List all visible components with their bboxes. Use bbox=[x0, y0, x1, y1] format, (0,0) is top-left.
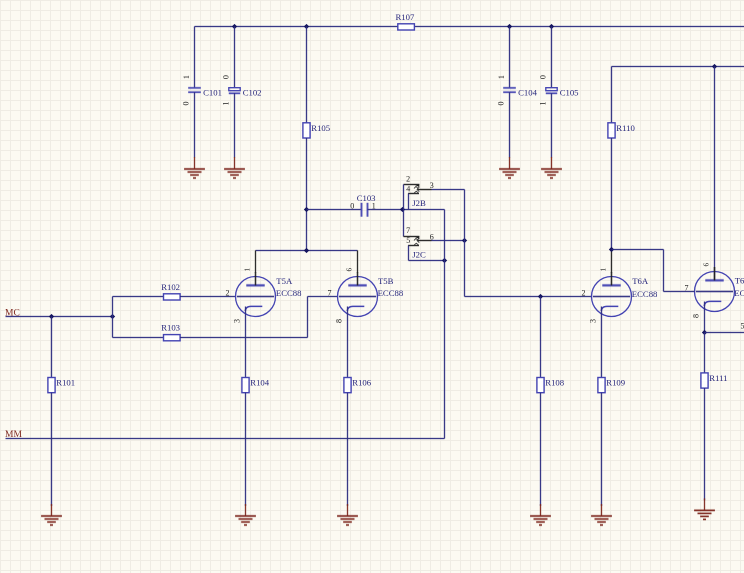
wire R105 lower bbox=[305, 138, 308, 251]
svg-text:0: 0 bbox=[497, 102, 506, 106]
resistor R105 bbox=[303, 123, 330, 138]
connector J2C pin 5 bbox=[406, 236, 419, 246]
wire J2C pin5 to MM riser bbox=[409, 259, 445, 262]
svg-text:T6B: T6B bbox=[735, 275, 744, 285]
ground R109 bbox=[591, 504, 612, 525]
wire top B+ rail right segment bbox=[415, 25, 744, 28]
svg-text:5: 5 bbox=[406, 236, 410, 245]
junction T6A anode bbox=[609, 247, 614, 252]
resistor R106 bbox=[344, 378, 372, 393]
triode T6A bbox=[582, 267, 659, 323]
wire C105 top bbox=[550, 27, 553, 88]
resistor R103 bbox=[161, 323, 180, 341]
svg-text:3: 3 bbox=[588, 319, 597, 323]
svg-text:R101: R101 bbox=[56, 378, 75, 388]
triode T5A bbox=[226, 267, 303, 323]
svg-text:0: 0 bbox=[350, 201, 354, 210]
svg-text:0: 0 bbox=[538, 75, 547, 79]
ground R101 bbox=[41, 504, 62, 525]
svg-text:1: 1 bbox=[600, 267, 608, 271]
wire C101 bottom bbox=[193, 92, 196, 157]
junction R108 tap bbox=[538, 294, 543, 299]
wire J2B pin2 to node A bbox=[402, 185, 405, 237]
svg-text:T5A: T5A bbox=[276, 276, 293, 286]
wire R103 right bbox=[180, 336, 307, 339]
wire T5A cathode bbox=[244, 307, 247, 378]
label J2C bbox=[412, 250, 426, 260]
wire R106 lower bbox=[346, 393, 349, 506]
triode T6B bbox=[685, 262, 744, 318]
svg-text:0: 0 bbox=[182, 102, 191, 106]
svg-text:2: 2 bbox=[406, 175, 410, 184]
resistor R102 bbox=[161, 282, 180, 300]
resistor R110 bbox=[608, 123, 636, 138]
svg-text:6: 6 bbox=[346, 267, 354, 271]
wire R101 lower bbox=[50, 393, 53, 506]
svg-text:7: 7 bbox=[406, 226, 410, 235]
svg-text:J2B: J2B bbox=[412, 198, 426, 208]
wire C103 left bbox=[307, 208, 362, 211]
resistor R107 bbox=[396, 12, 415, 30]
wire J2B pin4 down bbox=[407, 194, 410, 210]
connector J2C pin 7 bbox=[404, 226, 420, 240]
wire C102 bottom bbox=[233, 93, 236, 157]
wire R102 left bbox=[113, 295, 164, 298]
svg-text:2: 2 bbox=[582, 288, 586, 297]
svg-text:C101: C101 bbox=[203, 88, 222, 98]
svg-text:5: 5 bbox=[741, 322, 744, 331]
wire J2B pin3 right bbox=[432, 188, 465, 191]
wire R101 upper bbox=[50, 317, 53, 378]
wire C104 top bbox=[508, 27, 511, 88]
wire T5B cathode bbox=[346, 307, 349, 378]
svg-text:2: 2 bbox=[226, 288, 230, 297]
wire R102 right bbox=[180, 295, 235, 298]
wire C104 bottom bbox=[508, 92, 511, 157]
svg-text:R109: R109 bbox=[606, 378, 625, 388]
junction R101 tap bbox=[49, 314, 54, 319]
ground R104 bbox=[235, 504, 256, 525]
svg-text:1: 1 bbox=[538, 102, 547, 106]
svg-text:T5B: T5B bbox=[378, 276, 394, 286]
svg-text:R111: R111 bbox=[709, 373, 727, 383]
wire MC bbox=[6, 315, 113, 318]
svg-text:R103: R103 bbox=[161, 323, 180, 333]
wire T6B grid riser bbox=[662, 250, 665, 292]
svg-text:C105: C105 bbox=[560, 88, 579, 98]
wire R111 lower bbox=[703, 388, 706, 500]
svg-text:R104: R104 bbox=[250, 378, 269, 388]
wire T6B anode bbox=[713, 67, 716, 281]
junction C104 top bbox=[507, 24, 512, 29]
junction C105 top bbox=[549, 24, 554, 29]
svg-text:7: 7 bbox=[328, 288, 332, 297]
wire R111 upper bbox=[703, 333, 706, 373]
wire second B+ rail bbox=[612, 65, 744, 68]
svg-text:J2C: J2C bbox=[412, 250, 426, 260]
junction C102 top bbox=[232, 24, 237, 29]
wire T6B cathode branch bbox=[705, 331, 744, 334]
junction R105 top bbox=[304, 24, 309, 29]
wire T5A anode drop bbox=[254, 251, 257, 273]
ground R106 bbox=[337, 504, 358, 525]
wire T6A cathode bbox=[600, 307, 603, 378]
wire T6A anode lead bbox=[610, 250, 613, 273]
wire R105 upper bbox=[305, 27, 308, 123]
svg-text:6: 6 bbox=[703, 262, 711, 266]
junction anode rail bbox=[304, 248, 309, 253]
svg-text:R102: R102 bbox=[161, 282, 180, 292]
wire T5B grid riser bbox=[306, 297, 309, 338]
wire R109 lower bbox=[600, 393, 603, 506]
wire J2 output to T6A grid bbox=[465, 295, 592, 298]
net label MC bbox=[5, 308, 20, 318]
label J2B bbox=[412, 198, 426, 208]
wire R103 left bbox=[113, 336, 164, 339]
svg-text:ECC88: ECC88 bbox=[378, 288, 404, 298]
capacitor C103 bbox=[350, 193, 376, 217]
connector J2B pin 3 bbox=[417, 181, 434, 192]
resistor R109 bbox=[598, 378, 625, 393]
wire MM riser bbox=[443, 210, 446, 439]
capacitor C104 bbox=[497, 75, 538, 105]
wire J2C pin5 down bbox=[407, 246, 410, 261]
svg-text:R105: R105 bbox=[311, 123, 330, 133]
net label MM bbox=[5, 430, 22, 440]
junction T6B cathode tap bbox=[702, 330, 707, 335]
wire MM bbox=[6, 437, 445, 440]
ground C102 bbox=[224, 157, 245, 178]
svg-text:T6A: T6A bbox=[632, 276, 649, 286]
connector J2B pin 4 bbox=[406, 184, 419, 193]
wire C101 top bbox=[193, 27, 196, 88]
ground R108 bbox=[530, 504, 551, 525]
svg-text:1: 1 bbox=[221, 102, 230, 106]
wire J2C pin6 right bbox=[432, 239, 465, 242]
wire R104 lower bbox=[244, 393, 247, 506]
wire anode rail bbox=[256, 249, 358, 252]
wire T6B grid bbox=[664, 290, 695, 293]
wire J2 output down bbox=[463, 190, 466, 297]
svg-text:C104: C104 bbox=[518, 88, 537, 98]
svg-text:1: 1 bbox=[244, 267, 252, 271]
resistor R104 bbox=[242, 378, 270, 393]
capacitor C105 bbox=[538, 75, 578, 105]
svg-text:3: 3 bbox=[232, 319, 241, 323]
svg-text:8: 8 bbox=[334, 319, 343, 323]
wire R110 upper bbox=[610, 67, 613, 123]
wire C105 bottom bbox=[550, 93, 553, 157]
junction MM riser bbox=[442, 258, 447, 263]
ground R111 bbox=[694, 498, 715, 519]
ground C105 bbox=[541, 157, 562, 178]
wire T6B cathode bbox=[703, 302, 706, 333]
junction node A bbox=[400, 207, 405, 212]
resistor R111 bbox=[701, 373, 728, 388]
svg-text:8: 8 bbox=[691, 314, 700, 318]
svg-text:R107: R107 bbox=[396, 12, 415, 22]
wire T5B grid bbox=[308, 295, 338, 298]
wire MC riser bbox=[111, 297, 114, 338]
ground C104 bbox=[499, 157, 520, 178]
pin number 5 clipped bbox=[741, 322, 744, 331]
svg-text:R110: R110 bbox=[616, 123, 635, 133]
svg-text:R108: R108 bbox=[545, 378, 564, 388]
capacitor C101 bbox=[182, 75, 222, 105]
capacitor C102 bbox=[221, 75, 261, 105]
resistor R101 bbox=[48, 378, 75, 393]
wire C102 top bbox=[233, 27, 236, 88]
wire R108 lower bbox=[539, 393, 542, 506]
svg-text:1: 1 bbox=[182, 75, 191, 79]
wire top B+ rail left segment bbox=[195, 25, 398, 28]
svg-text:0: 0 bbox=[221, 75, 230, 79]
svg-text:ECC88: ECC88 bbox=[632, 289, 658, 299]
svg-text:4: 4 bbox=[406, 184, 410, 193]
wire T5B anode drop bbox=[356, 251, 359, 273]
junction C103 branch bbox=[304, 207, 309, 212]
wire C103 right bbox=[368, 208, 445, 211]
junction MC split bbox=[110, 314, 115, 319]
connector J2B pin 2 bbox=[404, 175, 420, 189]
connector J2C pin 6 bbox=[417, 232, 434, 242]
junction T6B anode rail bbox=[712, 64, 717, 69]
triode T5B bbox=[328, 267, 404, 323]
resistor R108 bbox=[537, 378, 565, 393]
svg-text:1: 1 bbox=[497, 75, 506, 79]
svg-text:C102: C102 bbox=[243, 88, 262, 98]
wire R108 upper bbox=[539, 297, 542, 378]
svg-text:ECC88: ECC88 bbox=[734, 288, 744, 298]
svg-text:ECC88: ECC88 bbox=[276, 288, 302, 298]
wire T6A anode branch bbox=[612, 248, 664, 251]
junction pin3-pin6 bbox=[462, 238, 467, 243]
ground C101 bbox=[184, 157, 205, 178]
wire R110 lower bbox=[610, 138, 613, 250]
svg-text:R106: R106 bbox=[352, 378, 371, 388]
